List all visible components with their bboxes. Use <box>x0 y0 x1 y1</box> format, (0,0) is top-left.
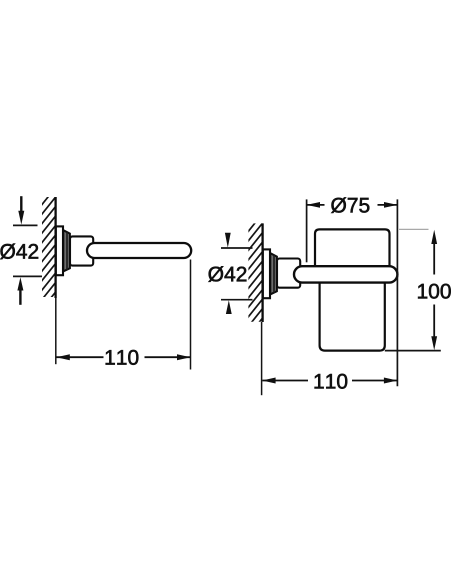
wall hatching (left view) <box>36 182 60 326</box>
dim 100 bottom arrow <box>431 336 437 350</box>
dim Ø75 left extension line <box>306 199 308 262</box>
dim text Ø42 (oe42R) <box>208 266 246 282</box>
dim Ø42 top extension line (left view) <box>13 224 38 226</box>
wall line (left view) <box>54 197 56 298</box>
ring band (right view) <box>270 253 277 294</box>
ring band (left view) <box>63 230 70 271</box>
holder ring capsule (right view) <box>294 266 397 282</box>
wall line (right view) <box>261 223 263 322</box>
dim Ø42 top arrow (right view) <box>225 233 231 248</box>
neck (left view) <box>70 236 93 265</box>
dim Ø75 right arrow <box>384 202 398 208</box>
glass rim (right view) <box>315 229 390 267</box>
flange (left view) <box>56 226 63 275</box>
dim line 110 (right view) <box>262 380 397 382</box>
dim 100 top arrow <box>431 230 437 244</box>
dim Ø75 left arrow <box>307 202 321 208</box>
dim text 100 (n100) <box>418 284 451 299</box>
dim Ø42 bottom arrow (right view) <box>226 300 232 314</box>
dim Ø42 bottom extension line (right view) <box>221 299 253 301</box>
wall face extension line (right view) <box>261 322 263 395</box>
dim text Ø75 (oe75) <box>331 197 369 213</box>
dim text 110 (n110R) <box>315 374 348 389</box>
dim line Ø75 <box>307 204 397 206</box>
flange (right view) <box>263 249 270 298</box>
dim line 100 <box>433 243 435 338</box>
dim 110 right arrow (left view) <box>177 354 191 360</box>
dim Ø42 bottom extension line (left view) <box>13 275 42 277</box>
dim 110 left arrow (left view) <box>56 354 70 360</box>
dim Ø42 top extension line (right view) <box>221 247 253 249</box>
glass body (right view) <box>320 282 385 351</box>
ring inner line (right view) <box>273 256 275 293</box>
dim line 110 (left view) <box>57 356 191 358</box>
dim 110 right arrow (right view) <box>384 378 398 384</box>
dim Ø75 / 110 right extension line <box>396 199 398 386</box>
wall face extension line (left view) <box>55 298 57 364</box>
dim 100 top extension line <box>399 228 429 230</box>
dim Ø42 top arrow (left view) <box>18 196 24 224</box>
neck (right view) <box>277 259 300 288</box>
ring inner line (left view) <box>66 233 68 270</box>
dim Ø42 bottom arrow (left view) <box>17 277 23 305</box>
wall hatching (right view) <box>243 208 267 352</box>
arm capsule (left view) <box>87 243 191 258</box>
dim 100 bottom extension line <box>385 350 441 352</box>
dim 110 left arrow (right view) <box>262 378 276 384</box>
arm end extension line (left view) <box>190 260 192 370</box>
dim text Ø42 (oe42L) <box>0 244 38 260</box>
dim text 110 (n110L) <box>106 350 139 365</box>
